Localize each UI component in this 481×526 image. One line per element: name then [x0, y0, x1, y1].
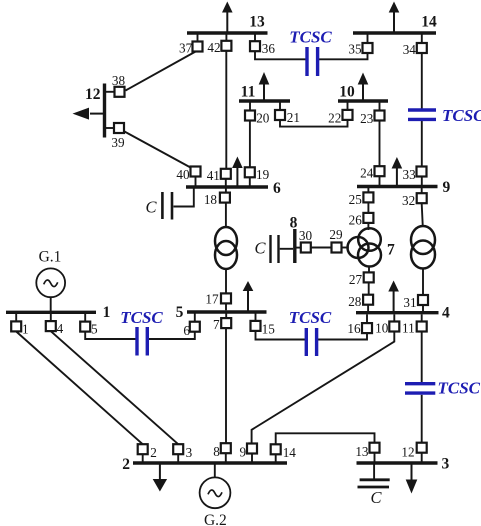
load arrow bus 2 [153, 463, 167, 492]
transformer 4-9 [411, 226, 435, 269]
wire bus 3 to capacitor C [373, 465, 375, 479]
svg-text:3: 3 [442, 456, 450, 473]
TCSC capacitor (line 5-4) [306, 328, 316, 356]
breaker 2 [138, 444, 148, 454]
wire line 9-10 (23 to 24) [379, 121, 381, 167]
svg-text:2: 2 [122, 456, 130, 473]
svg-text:16: 16 [347, 321, 361, 336]
svg-text:10: 10 [375, 320, 389, 335]
wire breaker 11 to TCSC 4-3 [421, 332, 423, 382]
wire breaker 8 to bus 2 [225, 453, 227, 461]
svg-text:G.2: G.2 [204, 512, 227, 526]
wire line 2-4 (10 to 9) [252, 332, 395, 444]
breaker 13 [370, 443, 380, 453]
wire breaker 15 to TCSC 5-4 [256, 331, 306, 340]
wire bus 6 to breaker 18 [225, 189, 227, 194]
transformer 7 (three-winding) [348, 228, 382, 266]
load arrow bus 4 [388, 281, 399, 313]
svg-text:9: 9 [240, 444, 247, 459]
wire bus 11 to breaker 20 [249, 103, 251, 111]
svg-text:G.1: G.1 [39, 249, 62, 266]
bus 3 [357, 456, 450, 473]
svg-text:33: 33 [403, 167, 417, 182]
wire breaker 3 to bus 2 [177, 454, 179, 461]
breaker 11 [417, 322, 427, 332]
wire bus 11 to breaker 21 [279, 103, 281, 111]
wire breaker 36 to TCSC 13-14 [255, 51, 306, 59]
breaker 26 [363, 213, 373, 223]
svg-text:10: 10 [339, 84, 355, 101]
svg-text:C: C [370, 488, 382, 507]
bus 9 [357, 179, 451, 196]
svg-text:8: 8 [290, 215, 298, 232]
wire bus 1 to breaker 5 [84, 314, 86, 322]
wire breaker 34 to TCSC 14-9 [421, 53, 423, 109]
wire TCSC 4-3 to breaker 12 [421, 395, 423, 443]
svg-text:1: 1 [22, 321, 29, 336]
wire bus 5 to breaker 6 [194, 314, 196, 323]
wire line 13-12 (37 to 38) [126, 51, 197, 91]
wire bus 9 to breaker 32 [421, 188, 423, 194]
breaker 35 [363, 43, 373, 53]
wire breaker 30 to breaker 29 [311, 247, 332, 249]
wire breaker 13 to bus 3 [374, 453, 376, 462]
svg-text:TCSC: TCSC [289, 28, 332, 47]
wire breaker 12 to bus 3 [421, 453, 423, 462]
svg-text:19: 19 [256, 167, 270, 182]
wire breaker 2 to bus 2 [142, 454, 144, 461]
svg-text:23: 23 [360, 111, 374, 126]
svg-text:11: 11 [402, 320, 415, 335]
bus 5 [176, 304, 267, 321]
svg-text:5: 5 [176, 304, 184, 321]
TCSC capacitor (line 4-3) [405, 384, 435, 393]
breaker 23 [375, 111, 385, 121]
breaker 29 [332, 243, 342, 253]
generator G.2 [200, 477, 231, 526]
breaker 42 [221, 41, 231, 51]
svg-text:4: 4 [442, 305, 450, 322]
load arrow bus 3 [406, 463, 418, 494]
wire line 2-5 (7 to 8) [225, 328, 227, 443]
svg-text:41: 41 [207, 168, 220, 183]
wire TCSC 1-5 to breaker 6 [149, 332, 195, 339]
breaker 21 [275, 110, 285, 120]
svg-text:TCSC: TCSC [289, 308, 332, 327]
svg-text:TCSC: TCSC [442, 106, 481, 125]
svg-text:34: 34 [403, 42, 417, 57]
transformer 5-6 [215, 227, 237, 269]
breaker 18 [220, 193, 230, 203]
wire bus 9 to breaker 24 [379, 176, 381, 185]
svg-text:35: 35 [348, 42, 362, 57]
bus 1 [6, 304, 110, 321]
svg-text:42: 42 [207, 40, 220, 55]
wire line 1-2 circuit a (1 to 2) [16, 332, 143, 445]
bus 6 [186, 180, 281, 197]
wire bus 6 to breaker 40 [195, 176, 197, 186]
wire bus 14 to breaker 35 [367, 35, 369, 44]
breaker 33 [417, 167, 427, 177]
svg-text:2: 2 [150, 445, 157, 460]
wire breaker 17 to bus 5 [225, 304, 227, 311]
breaker 6 [190, 322, 200, 332]
breaker 31 [418, 295, 428, 305]
breaker 10 [389, 322, 399, 332]
wire bus 5 to breaker 7 [225, 314, 227, 319]
wire bus 9 to breaker 25 [367, 188, 369, 193]
svg-text:20: 20 [256, 110, 270, 125]
wire TCSC 5-4 to breaker 16 [318, 333, 367, 339]
TCSC capacitor (line 14-9) [408, 110, 436, 119]
wire breaker 18 to transformer 5-6 [225, 203, 227, 229]
wire bus 6 to breaker 19 [249, 177, 251, 186]
load arrow bus 11 [259, 72, 270, 101]
generator G.1 [36, 249, 65, 298]
wire capacitor C to bus 6 [174, 188, 194, 207]
breaker 9 [247, 444, 257, 454]
wire capacitor C to bus 8 [280, 248, 293, 250]
breaker 5 [80, 322, 90, 332]
wire breaker 14 to bus 2 [275, 454, 277, 461]
svg-text:17: 17 [205, 292, 219, 307]
svg-text:13: 13 [249, 14, 265, 31]
svg-text:7: 7 [213, 317, 220, 332]
bus 13 [187, 14, 268, 34]
wire breaker 29 to transformer 7 [342, 247, 349, 249]
bus 8 (vertical) [290, 215, 298, 264]
wire breaker 31 to bus 4 [422, 305, 424, 311]
breaker 3 [173, 444, 183, 454]
breaker 20 [245, 111, 255, 121]
svg-text:28: 28 [348, 294, 362, 309]
breaker 25 [363, 192, 373, 202]
wire breaker 32 to transformer 4-9 [422, 204, 423, 228]
breaker 41 [221, 169, 231, 179]
wire line 1-2 circuit b (4 to 3) [51, 331, 178, 444]
breaker 36 [250, 41, 260, 51]
svg-text:13: 13 [355, 444, 369, 459]
wire transformer 5-6 to breaker 17 [225, 268, 227, 293]
wire G.1 to bus 1 [50, 297, 52, 311]
load arrow bus 10 [358, 73, 369, 102]
breaker 8 [221, 443, 231, 453]
capacitor C (bus 8) [271, 235, 279, 263]
wire breaker 27 to breaker 28 [368, 283, 370, 296]
wire bus 12 to breaker 39 [105, 127, 114, 129]
wire bus 8 to breaker 30 [297, 247, 302, 249]
breaker 34 [417, 43, 427, 53]
svg-text:15: 15 [262, 321, 276, 336]
breaker 24 [375, 166, 385, 176]
wire breaker 5 to TCSC 1-5 [85, 332, 136, 339]
svg-text:TCSC: TCSC [120, 308, 163, 327]
bus 11 [239, 84, 290, 102]
breaker 15 [251, 321, 261, 331]
svg-text:11: 11 [241, 84, 256, 101]
wire line 10-11 (21 to 22) [280, 120, 348, 127]
svg-text:29: 29 [329, 227, 343, 242]
svg-text:C: C [255, 239, 267, 258]
load arrow bus 6 [232, 157, 243, 188]
wire bus 10 to breaker 23 [379, 103, 381, 111]
wire line 13-6 (42 to 41) [225, 51, 227, 170]
breaker 32 [417, 193, 427, 203]
breaker 16 [362, 323, 372, 333]
svg-text:6: 6 [273, 180, 281, 197]
wire bus 13 to breaker 37 [197, 35, 199, 43]
svg-text:26: 26 [349, 213, 363, 228]
wire breaker 28 to bus 4 [367, 305, 369, 311]
wire bus 9 to breaker 33 [421, 177, 423, 186]
svg-text:7: 7 [387, 242, 395, 259]
wire transformer 7 to breaker 27 [368, 266, 370, 273]
capacitor C (bus 3) [358, 480, 390, 487]
svg-text:5: 5 [91, 321, 98, 336]
svg-text:14: 14 [421, 14, 437, 31]
wire TCSC 13-14 to breaker 35 [319, 53, 368, 59]
breaker 17 [221, 293, 231, 303]
svg-text:3: 3 [186, 445, 193, 460]
svg-text:36: 36 [262, 41, 276, 56]
breaker 37 [193, 42, 203, 52]
TCSC capacitor (line 13-14) [307, 47, 318, 76]
svg-text:32: 32 [402, 193, 415, 208]
load arrow bus 13 [222, 2, 233, 34]
svg-text:30: 30 [299, 228, 313, 243]
breaker 7 [221, 318, 231, 328]
wire TCSC 14-9 to breaker 33 [421, 121, 423, 167]
svg-text:C: C [146, 197, 158, 216]
svg-text:37: 37 [179, 41, 193, 56]
breaker 19 [245, 167, 255, 177]
load arrow bus 9 [392, 157, 403, 187]
breaker 28 [363, 295, 373, 305]
wire transformer 4-9 to breaker 31 [422, 268, 424, 296]
bus 4 [356, 305, 450, 322]
capacitor C (bus 6) [162, 192, 172, 220]
TCSC capacitor (line 1-5) [137, 327, 147, 356]
breaker 22 [343, 110, 353, 120]
wire breaker 9 to bus 2 [251, 454, 253, 462]
svg-text:31: 31 [403, 295, 416, 310]
wire bus 6 to breaker 41 [225, 178, 227, 186]
bus 2 [122, 456, 287, 473]
load arrow bus 5 [243, 281, 254, 312]
wire breaker 26 to transformer 7 [367, 223, 369, 230]
svg-text:27: 27 [349, 272, 363, 287]
wire breaker 25 to breaker 26 [367, 203, 369, 214]
svg-text:12: 12 [85, 86, 101, 103]
svg-text:1: 1 [103, 304, 111, 321]
load arrow bus 12 [73, 108, 105, 120]
bus 12 (vertical) [85, 84, 105, 138]
breaker 14 [271, 444, 281, 454]
wire line 6-11 (19 to 20) [249, 121, 251, 168]
svg-text:18: 18 [204, 192, 218, 207]
wire bus 13 to breaker 36 [254, 35, 256, 42]
wire bus 13 to breaker 42 [225, 35, 227, 42]
wire line 2-3 (14 to 13) [276, 433, 375, 444]
svg-text:39: 39 [111, 135, 125, 150]
breaker 38 [115, 87, 125, 97]
wire bus 5 to breaker 15 [255, 314, 257, 322]
svg-text:21: 21 [287, 110, 300, 125]
wire bus 10 to breaker 22 [347, 103, 349, 111]
svg-text:25: 25 [349, 192, 363, 207]
svg-text:4: 4 [57, 321, 64, 336]
breaker 27 [364, 272, 374, 282]
wire bus 1 to breaker 1 [15, 314, 17, 322]
wire bus 2 to G.2 [214, 465, 216, 478]
breaker 4 [46, 321, 56, 331]
wire bus 12 to breaker 38 [105, 91, 114, 93]
wire bus 4 to breaker 10 [393, 314, 395, 321]
svg-text:8: 8 [213, 444, 220, 459]
svg-text:24: 24 [360, 165, 374, 180]
wire bus 1 to breaker 4 [50, 314, 52, 321]
breaker 30 [301, 243, 311, 253]
wire bus 14 to breaker 34 [421, 35, 423, 44]
breaker 40 [191, 167, 201, 177]
bus 10 [338, 84, 388, 102]
breaker 1 [11, 321, 21, 331]
svg-text:14: 14 [283, 445, 297, 460]
svg-text:9: 9 [443, 179, 451, 196]
svg-text:22: 22 [328, 110, 341, 125]
svg-text:12: 12 [401, 444, 414, 459]
breaker 12 [417, 443, 427, 453]
bus 14 [353, 14, 437, 34]
wire bus 4 to breaker 11 [421, 314, 423, 321]
load arrow bus 14 [389, 2, 400, 34]
svg-text:6: 6 [183, 323, 190, 338]
svg-text:TCSC: TCSC [438, 378, 481, 397]
breaker 39 [114, 123, 124, 133]
svg-text:38: 38 [112, 73, 126, 88]
svg-text:40: 40 [176, 167, 190, 182]
wire bus 4 to breaker 16 [366, 314, 368, 323]
wire line 12-6 (39 to 40) [125, 132, 191, 168]
